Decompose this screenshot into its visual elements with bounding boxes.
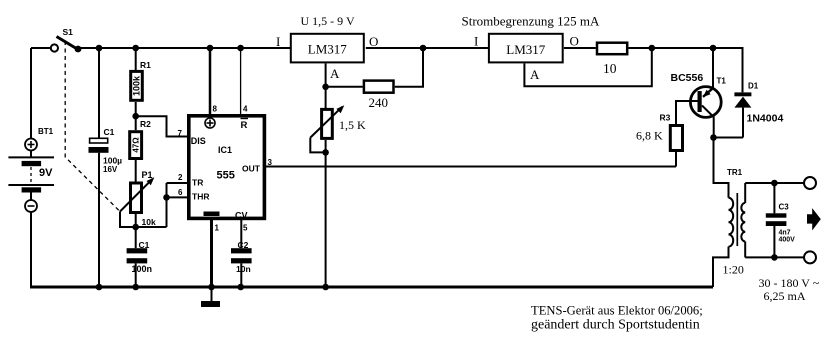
svg-text:400V: 400V (779, 237, 796, 244)
svg-text:47Ω: 47Ω (131, 137, 140, 153)
svg-text:2: 2 (178, 173, 183, 182)
svg-text:BC556: BC556 (671, 72, 704, 84)
svg-text:TENS-Gerät aus Elektor 06/2006: TENS-Gerät aus Elektor 06/2006; (531, 304, 703, 318)
svg-text:C2: C2 (238, 240, 249, 250)
svg-text:8: 8 (213, 105, 218, 114)
svg-text:LM317: LM317 (506, 42, 546, 57)
svg-text:geändert durch Sportstudentin: geändert durch Sportstudentin (531, 318, 700, 333)
svg-text:100k: 100k (131, 75, 141, 96)
svg-text:TR1: TR1 (727, 168, 743, 177)
svg-text:C1: C1 (139, 240, 150, 250)
svg-text:3: 3 (268, 158, 273, 167)
svg-text:IC1: IC1 (218, 145, 232, 155)
svg-text:10: 10 (603, 61, 617, 76)
svg-text:OUT: OUT (242, 164, 261, 174)
svg-text:16V: 16V (103, 165, 118, 174)
svg-text:R3: R3 (660, 113, 671, 123)
svg-text:6: 6 (178, 188, 183, 197)
svg-text:BT1: BT1 (38, 127, 54, 136)
svg-text:R: R (241, 120, 248, 131)
svg-text:5: 5 (243, 224, 248, 233)
svg-text:1:20: 1:20 (723, 263, 744, 277)
svg-text:CV: CV (235, 211, 248, 221)
svg-text:240: 240 (369, 95, 389, 110)
svg-text:DIS: DIS (191, 136, 206, 146)
svg-text:TR: TR (192, 178, 203, 188)
svg-text:100µ: 100µ (103, 156, 122, 166)
svg-text:555: 555 (217, 170, 235, 182)
svg-text:4: 4 (243, 105, 248, 114)
svg-text:A: A (530, 67, 540, 82)
svg-text:O: O (570, 34, 579, 49)
svg-text:100n: 100n (132, 264, 153, 274)
svg-text:6,8 K: 6,8 K (636, 129, 663, 143)
svg-text:I: I (474, 34, 478, 49)
svg-text:10k: 10k (142, 217, 156, 227)
svg-text:Strombegrenzung 125 mA: Strombegrenzung 125 mA (462, 14, 601, 29)
svg-text:6,25 mA: 6,25 mA (764, 289, 806, 303)
svg-text:C3: C3 (779, 203, 790, 212)
svg-text:1: 1 (215, 224, 220, 233)
svg-text:P1: P1 (142, 170, 153, 180)
svg-text:THR: THR (192, 192, 209, 202)
svg-text:LM317: LM317 (308, 42, 348, 57)
svg-text:R1: R1 (140, 60, 151, 70)
svg-text:A: A (330, 66, 340, 81)
svg-text:S1: S1 (63, 27, 74, 37)
svg-text:T1: T1 (717, 77, 727, 86)
svg-text:R2: R2 (140, 119, 151, 129)
svg-text:I: I (276, 34, 280, 49)
svg-text:1,5 K: 1,5 K (339, 118, 366, 132)
svg-text:U 1,5 - 9 V: U 1,5 - 9 V (301, 14, 355, 28)
svg-text:9V: 9V (39, 167, 53, 179)
svg-text:4n7: 4n7 (779, 230, 791, 237)
svg-text:O: O (369, 34, 378, 49)
svg-text:7: 7 (178, 129, 183, 138)
svg-text:D1: D1 (748, 82, 759, 91)
svg-text:30 - 180 V ~: 30 - 180 V ~ (759, 276, 820, 290)
svg-text:1N4004: 1N4004 (747, 113, 784, 125)
svg-text:10n: 10n (236, 264, 251, 274)
svg-text:C1: C1 (104, 127, 115, 137)
